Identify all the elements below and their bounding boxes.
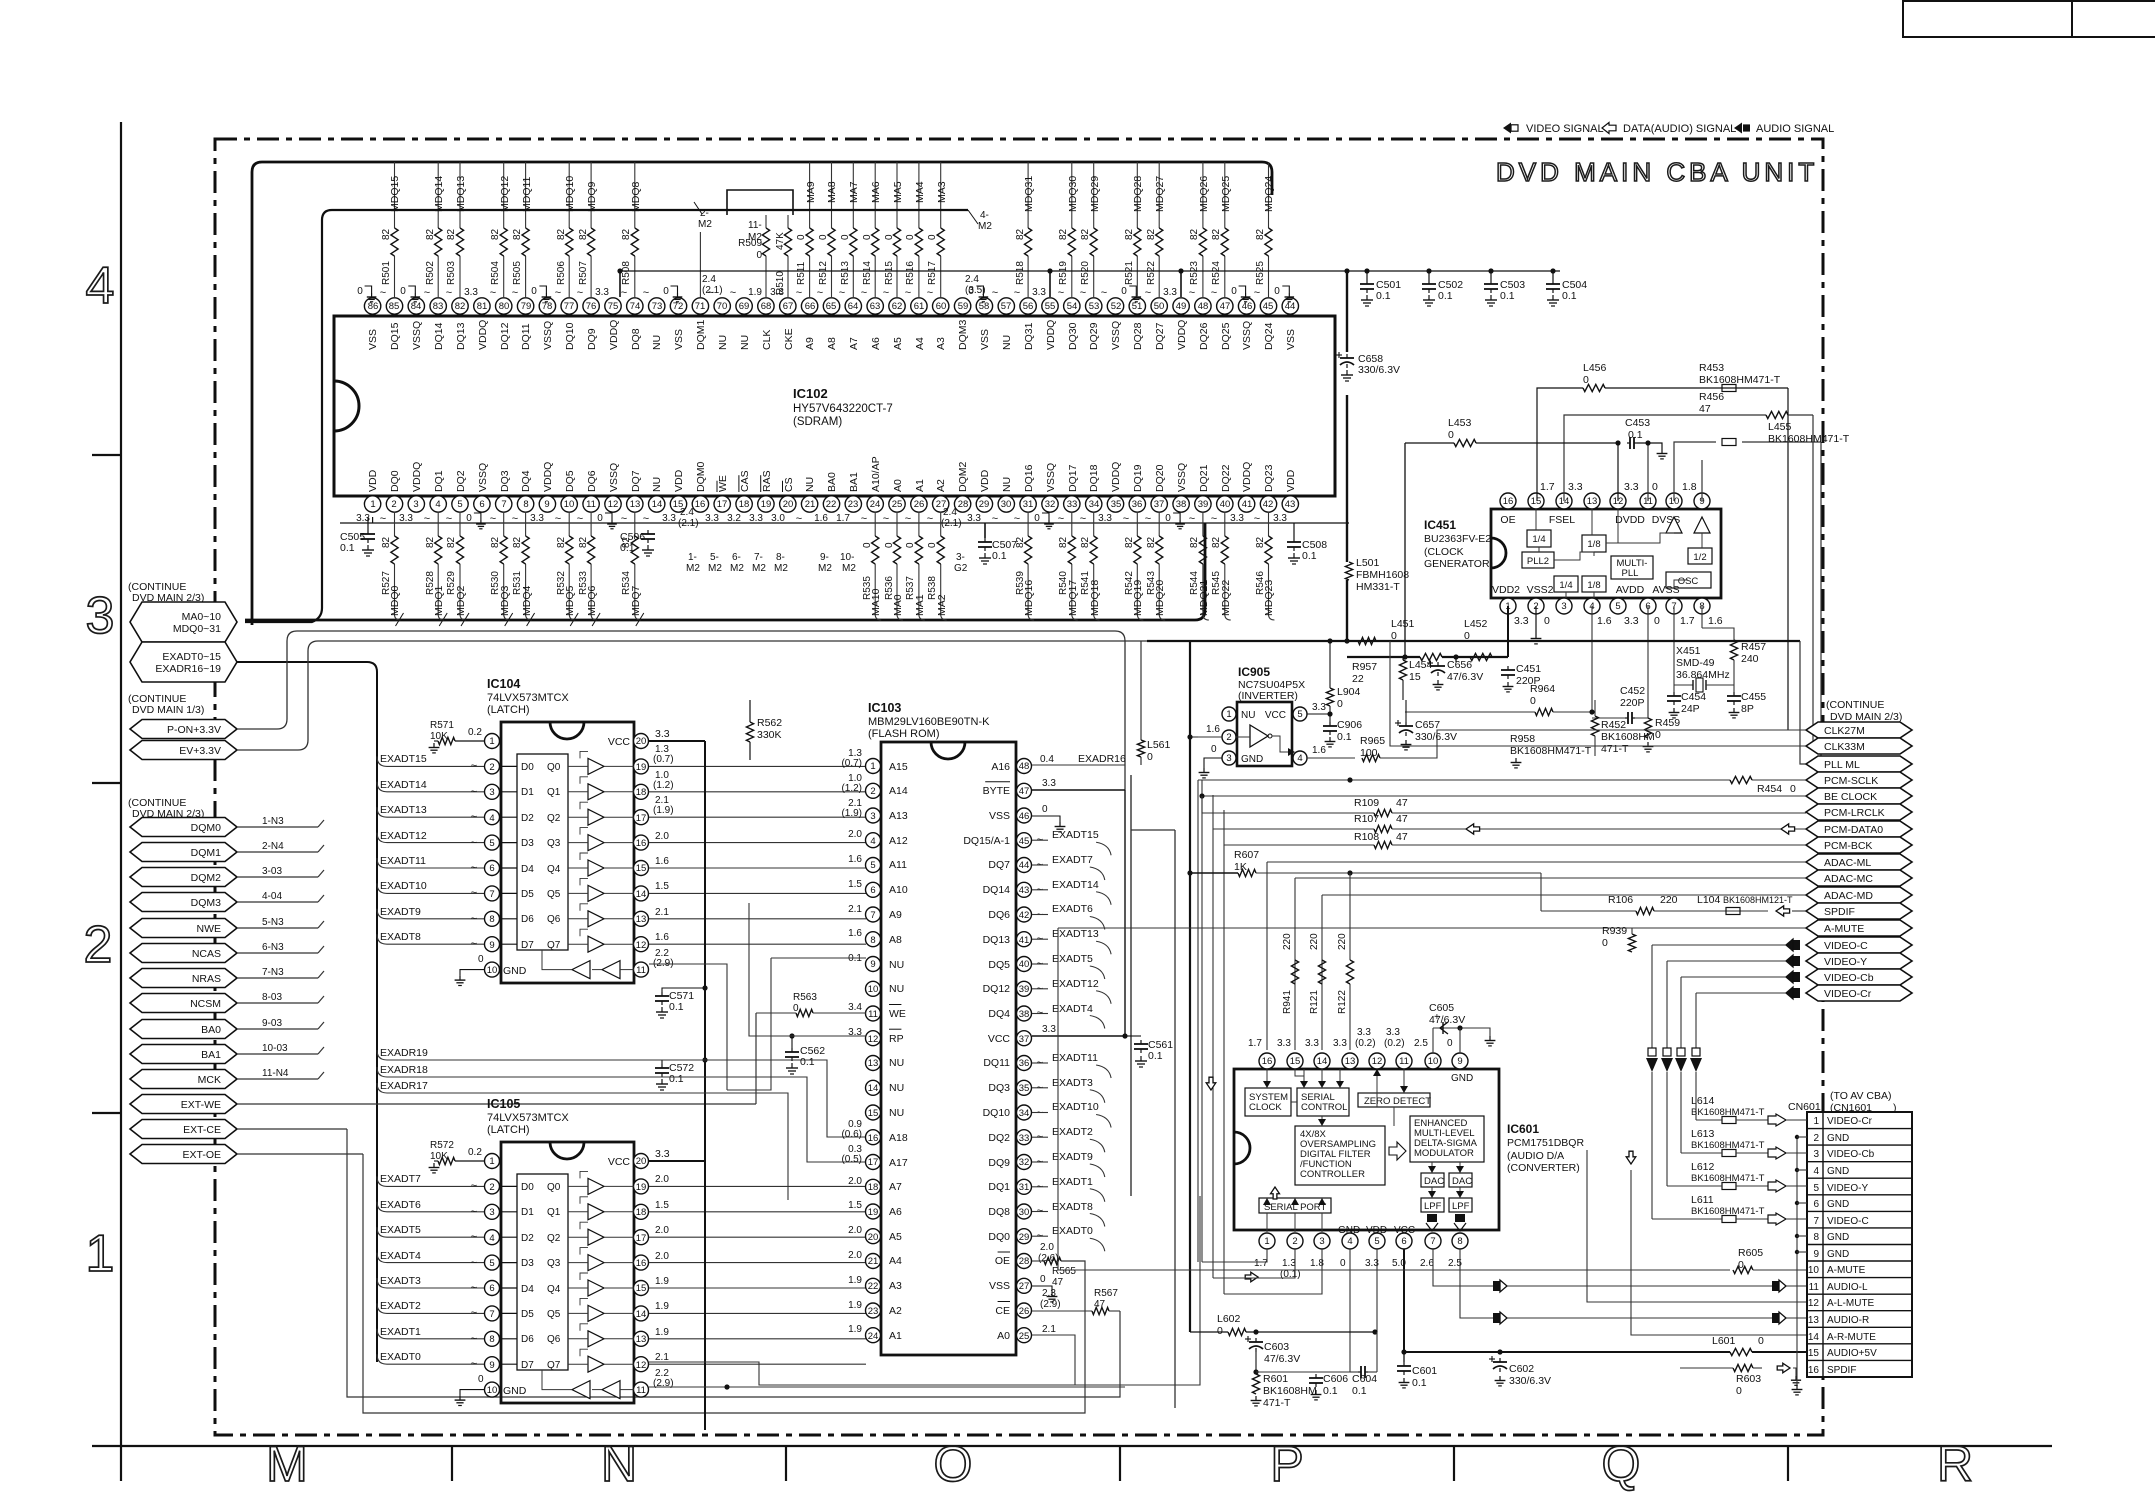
svg-text:HY57V643220CT-7: HY57V643220CT-7 — [793, 403, 893, 415]
svg-text:3.3: 3.3 — [1305, 1038, 1319, 1049]
wire x1175 — [1174, 830, 1176, 1408]
wire A-L-MUTE — [1587, 1150, 1806, 1302]
resistor R544 82 — [1199, 536, 1206, 564]
svg-text:0: 0 — [1211, 744, 1217, 755]
svg-text:16: 16 — [1262, 1056, 1273, 1067]
svg-text:82: 82 — [490, 228, 501, 240]
svg-text:~: ~ — [1145, 287, 1151, 299]
svg-text:AUDIO-L: AUDIO-L — [1827, 1282, 1868, 1293]
connector CN601 row line — [1807, 1260, 1912, 1262]
svg-text:HM331-T: HM331-T — [1356, 581, 1400, 593]
svg-text:0.4: 0.4 — [1040, 754, 1054, 765]
svg-text:R511: R511 — [796, 261, 807, 285]
svg-text:1/4: 1/4 — [1559, 580, 1572, 591]
svg-text:VDD: VDD — [673, 469, 685, 492]
IC102 pin 61 A4 — [918, 314, 920, 316]
svg-text:NU: NU — [1001, 477, 1013, 492]
latch IC105 pin 1 — [485, 1154, 500, 1169]
wire VIDEO-Cr — [1696, 992, 1790, 994]
svg-text:42: 42 — [1263, 499, 1274, 510]
wire R122 riser — [1349, 873, 1351, 960]
wire MDQ14 column — [437, 162, 439, 228]
IC102 pin 73 NU — [656, 314, 658, 316]
IC103 pin 5 A11 — [866, 858, 881, 873]
IC102 pin 38 VSSQ — [1180, 496, 1182, 497]
svg-text:0: 0 — [1034, 513, 1040, 524]
svg-text:7: 7 — [501, 499, 506, 510]
svg-text:EXADT3: EXADT3 — [380, 1275, 421, 1287]
svg-text:~: ~ — [883, 287, 889, 299]
svg-text:64: 64 — [848, 301, 859, 312]
svg-text:MDQ26: MDQ26 — [1198, 176, 1210, 212]
svg-text:C605: C605 — [1429, 1002, 1454, 1014]
svg-text:52: 52 — [1111, 301, 1122, 312]
IC103 pin 18 A7 — [866, 1179, 881, 1194]
svg-text:31: 31 — [1019, 1182, 1030, 1193]
capacitor C571 0.1 — [662, 988, 705, 992]
IC451 block 1/4 upper — [1527, 530, 1551, 547]
svg-text:MDQ15: MDQ15 — [389, 176, 401, 212]
svg-text:0: 0 — [793, 1003, 799, 1014]
svg-text:2.5: 2.5 — [1414, 1038, 1428, 1049]
IC905 pin 1 — [1222, 707, 1236, 721]
svg-text:3: 3 — [1561, 601, 1566, 612]
latch IC104 pin 17 — [634, 810, 649, 825]
svg-text:5: 5 — [1297, 709, 1302, 720]
svg-text:EXADT6: EXADT6 — [1052, 903, 1093, 915]
IC103 pin 30 DQ8 — [1017, 1204, 1032, 1219]
svg-text:R567: R567 — [1094, 1288, 1118, 1299]
IC103 pin 22 A3 — [866, 1278, 881, 1293]
IC601 pin 6 — [1396, 1233, 1412, 1249]
svg-text:PCM-DATA0: PCM-DATA0 — [1824, 824, 1883, 836]
latch IC105 pin 13 — [634, 1331, 649, 1346]
svg-text:32: 32 — [1019, 1157, 1030, 1168]
svg-text:58: 58 — [979, 301, 990, 312]
svg-text:6: 6 — [489, 863, 494, 874]
svg-text:NU: NU — [1241, 710, 1255, 721]
wire MA8 column — [831, 162, 833, 228]
svg-text:~: ~ — [471, 760, 477, 772]
svg-text:(0.7): (0.7) — [841, 758, 862, 769]
column tick — [1787, 1446, 1789, 1481]
IC102 pin 41 VDDQ — [1246, 496, 1248, 497]
IC905 pin 4 — [1293, 751, 1307, 765]
wire main 3.3 line y641 — [1147, 640, 1800, 642]
IC102 pin 72 VSS — [678, 314, 680, 316]
wire MA3 column — [940, 162, 942, 228]
IC102 pin 71 DQM1 — [699, 314, 701, 316]
node CLK33M tag — [1806, 738, 1912, 754]
svg-text:~: ~ — [471, 1231, 477, 1243]
IC451 pin 2 — [1528, 598, 1544, 614]
svg-text:1: 1 — [1264, 1236, 1269, 1247]
svg-text:R520: R520 — [1080, 261, 1091, 285]
svg-text:L104: L104 — [1697, 894, 1721, 906]
column tick — [785, 1446, 787, 1481]
IC103 pin 36 DQ11 — [1017, 1056, 1032, 1071]
svg-text:OE: OE — [1500, 514, 1515, 526]
svg-text:EXT-WE: EXT-WE — [181, 1099, 221, 1111]
svg-text:3.3: 3.3 — [1386, 1027, 1400, 1038]
IC103 pin 10 NU — [866, 981, 881, 996]
IC103 pin 12 RP — [866, 1031, 881, 1046]
svg-text:3.3: 3.3 — [1333, 1038, 1347, 1049]
svg-text:VDDQ: VDDQ — [477, 320, 489, 350]
IC102 pin 81 VDDQ — [481, 314, 483, 316]
svg-text:82: 82 — [1189, 228, 1200, 240]
svg-text:1.5: 1.5 — [655, 1200, 669, 1211]
connector CN601 row line — [1807, 1343, 1912, 1345]
wire EXT-OE — [237, 1153, 363, 1155]
svg-text:EXADT1: EXADT1 — [380, 1326, 421, 1338]
capacitor C561 0.1 — [1125, 1035, 1141, 1037]
dash-dot schematic border — [215, 139, 1823, 1435]
node ADAC-MC tag — [1806, 870, 1912, 886]
svg-text:EXADT15: EXADT15 — [1052, 829, 1099, 841]
wire vertical feeder x1347 — [1346, 271, 1348, 352]
svg-text:1.6: 1.6 — [848, 854, 862, 865]
svg-text:VSSQ: VSSQ — [1241, 321, 1253, 350]
wire SPDIF out — [1190, 1367, 1730, 1369]
svg-text:R525: R525 — [1255, 261, 1266, 285]
svg-text:~: ~ — [1058, 287, 1064, 299]
svg-text:CKE: CKE — [783, 328, 795, 350]
svg-text:Q4: Q4 — [547, 1284, 561, 1295]
svg-text:CLK27M: CLK27M — [1824, 725, 1865, 737]
svg-text:~: ~ — [577, 287, 583, 299]
svg-text:~: ~ — [861, 287, 867, 299]
svg-text:BYTE: BYTE — [983, 785, 1010, 797]
svg-text:28: 28 — [1019, 1256, 1030, 1267]
svg-text:DQ11: DQ11 — [983, 1057, 1010, 1069]
svg-text:18: 18 — [739, 499, 750, 510]
svg-text:C452: C452 — [1620, 685, 1645, 697]
svg-text:14: 14 — [868, 1083, 879, 1094]
svg-text:BA1: BA1 — [848, 472, 860, 492]
svg-text:0.1: 0.1 — [1562, 290, 1577, 302]
svg-text:DQ9: DQ9 — [988, 1157, 1010, 1169]
svg-text:EXADT12: EXADT12 — [380, 830, 427, 842]
svg-text:0: 0 — [862, 234, 873, 240]
svg-text:47: 47 — [1019, 786, 1030, 797]
svg-text:2: 2 — [489, 762, 494, 773]
svg-text:A-R-MUTE: A-R-MUTE — [1827, 1332, 1876, 1343]
svg-text:0: 0 — [663, 286, 669, 297]
svg-text:84: 84 — [411, 301, 422, 312]
svg-text:1.9: 1.9 — [655, 1327, 669, 1338]
wire y641 to PLL ML — [1800, 641, 1806, 764]
svg-text:C604: C604 — [1352, 1373, 1377, 1385]
svg-text:DQ7: DQ7 — [988, 859, 1010, 871]
svg-text:MA8: MA8 — [826, 181, 838, 203]
svg-text:VSS: VSS — [979, 329, 991, 350]
svg-text:GND: GND — [1827, 1249, 1849, 1260]
svg-text:EXADR17: EXADR17 — [380, 1080, 428, 1092]
svg-text:VDDQ: VDDQ — [1110, 462, 1122, 492]
svg-text:A-MUTE: A-MUTE — [1827, 1265, 1866, 1276]
svg-text:DVD MAIN CBA UNIT: DVD MAIN CBA UNIT — [1496, 157, 1818, 187]
svg-text:VDD: VDD — [367, 469, 379, 492]
svg-text:A3: A3 — [889, 1280, 902, 1292]
svg-text:3.3: 3.3 — [1042, 1024, 1056, 1035]
svg-text:R571: R571 — [430, 720, 454, 731]
svg-text:D7: D7 — [521, 1360, 534, 1371]
svg-text:~: ~ — [839, 287, 845, 299]
svg-text:4: 4 — [489, 1233, 494, 1244]
svg-text:1.9: 1.9 — [655, 1276, 669, 1287]
wire NCSM stub — [237, 1002, 318, 1004]
node NWE tag — [130, 919, 237, 938]
svg-text:0: 0 — [1652, 481, 1658, 493]
IC102 pin 70 NU — [721, 314, 723, 316]
svg-text:DQ6: DQ6 — [988, 909, 1010, 921]
resistor R457 240 — [1701, 606, 1703, 628]
svg-text:39: 39 — [1019, 984, 1030, 995]
wire IC105 pin12 net — [649, 1196, 1200, 1385]
svg-text:0: 0 — [531, 286, 537, 297]
open arrow right near serial port — [1245, 1272, 1258, 1282]
connector CN601 row line — [1807, 1359, 1912, 1361]
IC103 pin 6 A10 — [866, 882, 881, 897]
svg-text:~: ~ — [796, 287, 802, 299]
svg-text:DQ23: DQ23 — [1263, 464, 1275, 492]
latch IC104 pin 19 — [634, 759, 649, 774]
svg-text:CONTROLLER: CONTROLLER — [1300, 1169, 1365, 1180]
svg-text:16: 16 — [695, 499, 706, 510]
svg-text:7: 7 — [489, 889, 494, 900]
svg-text:3: 3 — [413, 499, 418, 510]
svg-text:EXT-OE: EXT-OE — [182, 1149, 221, 1161]
wire SPDIF — [1541, 910, 1636, 912]
svg-text:5: 5 — [1374, 1236, 1379, 1247]
svg-text:0.1: 0.1 — [1500, 290, 1515, 302]
latch IC105 pin 17 — [634, 1230, 649, 1245]
svg-text:3.3: 3.3 — [1357, 1027, 1371, 1038]
svg-text:0: 0 — [400, 286, 406, 297]
svg-text:A10: A10 — [889, 884, 908, 896]
IC102 pin 49 VDDQ — [1180, 314, 1182, 316]
svg-text:Q: Q — [1602, 1436, 1641, 1492]
svg-text:DQ30: DQ30 — [1067, 322, 1079, 350]
svg-text:R508: R508 — [621, 261, 632, 285]
resistor R504 82 — [500, 228, 507, 256]
svg-text:A11: A11 — [889, 859, 907, 871]
svg-text:330/6.3V: 330/6.3V — [1415, 731, 1457, 743]
node VIDEO-Cb tag — [1806, 969, 1912, 985]
IC601 block LPF left — [1421, 1198, 1444, 1212]
svg-text:3.3: 3.3 — [1624, 481, 1639, 493]
svg-text:45: 45 — [1263, 301, 1274, 312]
IC102 pin 52 VSSQ — [1115, 314, 1117, 316]
wire EXT-CE — [237, 1128, 347, 1130]
IC103 pin 38 DQ4 — [1017, 1006, 1032, 1021]
wire MDQ11 column — [525, 162, 527, 228]
svg-text:11: 11 — [636, 965, 646, 976]
svg-text:DQ25: DQ25 — [1220, 322, 1232, 350]
svg-text:330/6.3V: 330/6.3V — [1358, 364, 1400, 376]
svg-text:A12: A12 — [889, 835, 908, 847]
svg-text:VIDEO SIGNAL: VIDEO SIGNAL — [1526, 123, 1604, 135]
latch IC104 pin 9 — [485, 937, 500, 952]
svg-text:(TO AV CBA): (TO AV CBA) — [1830, 1090, 1891, 1102]
svg-text:EXADT6: EXADT6 — [380, 1199, 421, 1211]
svg-text:82: 82 — [455, 301, 466, 312]
svg-text:2.4: 2.4 — [702, 274, 716, 285]
wire BA1 stub — [237, 1053, 318, 1055]
IC102 pin 3 VDDQ — [415, 496, 417, 497]
svg-text:43: 43 — [1019, 885, 1030, 896]
svg-text:82: 82 — [1124, 536, 1135, 548]
svg-text:0.1: 0.1 — [1148, 1050, 1163, 1062]
svg-text:5: 5 — [870, 860, 875, 871]
svg-text:10: 10 — [487, 1385, 498, 1396]
svg-text:3: 3 — [489, 787, 494, 798]
resistor R523 82 — [1199, 228, 1206, 256]
connector CN601 row line — [1807, 1210, 1912, 1212]
svg-text:11: 11 — [586, 499, 596, 510]
svg-text:VCC: VCC — [608, 1156, 631, 1168]
resistor R538 0 — [937, 536, 944, 564]
svg-text:P-ON+3.3V: P-ON+3.3V — [167, 724, 221, 736]
svg-text:DQ22: DQ22 — [1220, 464, 1232, 492]
svg-text:MA0~10: MA0~10 — [182, 611, 222, 623]
wire MA1 column — [918, 512, 920, 536]
resistor R603 0 — [1733, 1364, 1753, 1371]
capacitor C572 0.1 — [662, 1060, 705, 1064]
svg-text:24: 24 — [870, 499, 881, 510]
svg-text:R106: R106 — [1608, 894, 1633, 906]
resistor R562 330K — [746, 722, 753, 742]
inductor L454 15 — [1399, 660, 1406, 680]
capacitor C604 0.1 — [1358, 1371, 1361, 1373]
IC102 pin 15 VDD — [678, 496, 680, 497]
inductor L104 BK1608HM121-T — [1726, 908, 1740, 915]
svg-text:A-MUTE: A-MUTE — [1824, 923, 1864, 935]
svg-text:3.3: 3.3 — [1098, 513, 1112, 524]
capacitor C657 330/6.3V — [1405, 722, 1407, 726]
svg-text:1.6: 1.6 — [1206, 724, 1220, 735]
svg-text:MDQ10: MDQ10 — [564, 176, 576, 212]
svg-text:M2: M2 — [686, 563, 700, 574]
svg-text:R122: R122 — [1337, 990, 1348, 1014]
node A-MUTE tag — [1806, 920, 1912, 936]
svg-text:(SDRAM): (SDRAM) — [793, 416, 842, 428]
svg-text:12: 12 — [608, 499, 619, 510]
svg-text:8: 8 — [1457, 1236, 1462, 1247]
svg-text:3.3: 3.3 — [967, 513, 981, 524]
svg-text:~: ~ — [471, 1333, 477, 1345]
svg-text:2-N4: 2-N4 — [262, 841, 284, 852]
svg-text:~: ~ — [817, 287, 823, 299]
svg-text:A7: A7 — [848, 337, 860, 350]
svg-text:Q7: Q7 — [547, 940, 561, 951]
svg-text:MA0: MA0 — [892, 594, 904, 616]
resistor R516 0 — [915, 228, 922, 256]
wire MA2 column — [940, 512, 942, 536]
node video arrow pin — [1768, 1147, 1786, 1159]
svg-text:17: 17 — [636, 813, 647, 824]
svg-text:MDQ12: MDQ12 — [499, 176, 511, 212]
svg-text:5: 5 — [489, 1258, 494, 1269]
svg-text:VDD: VDD — [979, 469, 991, 492]
svg-text:BK1608HM: BK1608HM — [1601, 731, 1655, 743]
svg-text:3: 3 — [86, 587, 115, 645]
svg-text:Q3: Q3 — [547, 1258, 561, 1269]
svg-text:MDQ23: MDQ23 — [1263, 580, 1275, 616]
svg-text:70: 70 — [717, 301, 728, 312]
svg-text:EXADT10: EXADT10 — [1052, 1101, 1099, 1113]
svg-text:2.1: 2.1 — [848, 904, 862, 915]
wire MDQ5 column — [568, 512, 570, 536]
IC102 pin 20 CS — [787, 496, 789, 497]
svg-text:47: 47 — [1396, 797, 1408, 809]
wire PCM vertical x1224 — [1223, 845, 1225, 1294]
svg-text:1.6: 1.6 — [1312, 745, 1326, 756]
svg-text:82: 82 — [490, 536, 501, 548]
svg-text:82: 82 — [1124, 228, 1135, 240]
svg-text:(3.5): (3.5) — [965, 285, 986, 296]
svg-text:A9: A9 — [889, 909, 902, 921]
svg-text:IC105: IC105 — [487, 1097, 520, 1111]
wire MDQ13 column — [459, 162, 461, 228]
IC102 pin 8 DQ4 — [525, 496, 527, 497]
svg-text:82: 82 — [578, 536, 589, 548]
svg-text:47: 47 — [1220, 301, 1231, 312]
IC451 pin 3 — [1556, 598, 1572, 614]
svg-text:FBMH1608: FBMH1608 — [1356, 569, 1409, 581]
IC601 block DAC right — [1449, 1173, 1472, 1187]
IC601 pin 2 — [1287, 1233, 1303, 1249]
wire DQM3 stub — [237, 901, 318, 903]
svg-text:DQ24: DQ24 — [1263, 322, 1275, 350]
svg-text:2.4: 2.4 — [680, 507, 694, 518]
node DQM1 tag — [130, 843, 237, 862]
svg-text:L904: L904 — [1337, 686, 1361, 698]
svg-text:MA7: MA7 — [848, 181, 860, 203]
svg-text:GND: GND — [1827, 1133, 1849, 1144]
svg-text:4-: 4- — [980, 210, 989, 221]
svg-text:1/2: 1/2 — [1693, 552, 1706, 563]
svg-text:ADAC-ML: ADAC-ML — [1824, 857, 1871, 869]
svg-text:8: 8 — [489, 914, 494, 925]
svg-text:~: ~ — [1101, 287, 1107, 299]
svg-text:EXADT4: EXADT4 — [380, 1250, 421, 1262]
wire VIDEO-Y — [1667, 960, 1790, 962]
wire pin4 to CLK27M — [1380, 730, 1806, 758]
IC103 pin 2 A14 — [866, 783, 881, 798]
resistor R527 82 — [391, 536, 398, 564]
IC103 pin 47 BYTE — [1017, 783, 1032, 798]
svg-text:EXADT14: EXADT14 — [1052, 879, 1099, 891]
svg-text:0: 0 — [1337, 698, 1343, 710]
svg-text:BK1608HM471-T: BK1608HM471-T — [1699, 374, 1781, 386]
svg-text:~: ~ — [992, 287, 998, 299]
svg-text:5: 5 — [457, 499, 462, 510]
svg-text:EXADT8: EXADT8 — [380, 931, 421, 943]
latch IC104 buffer 0 — [588, 758, 604, 774]
IC102 pin 56 DQ31 — [1027, 314, 1029, 316]
svg-text:~: ~ — [471, 1180, 477, 1192]
svg-text:80: 80 — [499, 301, 510, 312]
svg-text:EXADT14: EXADT14 — [380, 779, 427, 791]
svg-text:A13: A13 — [889, 810, 908, 822]
svg-text:3: 3 — [489, 1207, 494, 1218]
IC451 output buffer 1 — [1666, 517, 1682, 533]
latch IC104 pin 15 — [634, 861, 649, 876]
svg-text:1.6: 1.6 — [848, 928, 862, 939]
svg-text:9: 9 — [489, 940, 494, 951]
